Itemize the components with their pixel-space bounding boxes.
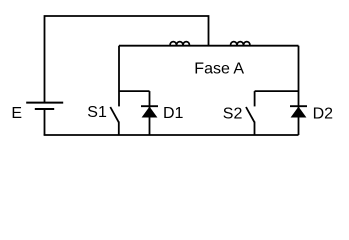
svg-text:D1: D1 [163, 105, 184, 122]
svg-text:S1: S1 [87, 104, 107, 121]
svg-text:E: E [11, 105, 22, 122]
svg-text:Fase A: Fase A [194, 61, 244, 78]
svg-text:S2: S2 [223, 105, 243, 122]
svg-text:D2: D2 [313, 106, 334, 123]
